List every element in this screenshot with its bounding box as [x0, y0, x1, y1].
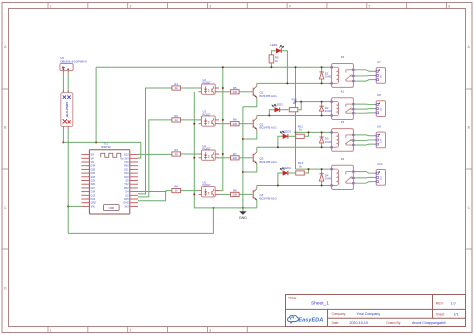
wire R5 to Q1 base — [239, 91, 253, 93]
wire collector rail row3 — [257, 146, 332, 148]
svg-text:VN: VN — [91, 161, 95, 164]
junction LED3 collector rail — [277, 146, 279, 148]
svg-text:Anoof Chappangathil: Anoof Chappangathil — [412, 321, 446, 325]
svg-text:GND: GND — [239, 216, 247, 220]
wire R8 to Q4 base — [239, 193, 253, 195]
title block frame — [286, 295, 466, 327]
transistor Q4 BC547B — [253, 189, 257, 200]
wire K1 COM to U8 — [353, 108, 374, 111]
wire R3 out to opto U4 — [181, 153, 199, 155]
svg-text:3V3: 3V3 — [124, 205, 129, 208]
svg-text:GND: GND — [91, 202, 97, 205]
svg-text:K2: K2 — [341, 120, 345, 124]
junction emitter Q2 — [242, 138, 244, 140]
svg-text:EasyEDA: EasyEDA — [298, 318, 323, 324]
svg-text:330: 330 — [233, 156, 238, 160]
junction D4 top — [321, 168, 323, 170]
wire collector rail row1 — [257, 82, 332, 84]
wire VCC distribution bus — [295, 67, 297, 169]
wire collector rail row4 — [257, 185, 332, 187]
svg-text:EN: EN — [91, 154, 95, 157]
svg-text:VIN: VIN — [91, 205, 95, 208]
resistor R7 — [231, 156, 240, 160]
junction D4 bottom — [321, 185, 323, 187]
wire K4 NO to U10 — [353, 172, 374, 174]
svg-text:1: 1 — [50, 329, 52, 333]
junction R11 rail — [308, 131, 310, 133]
svg-text:PC817: PC817 — [203, 81, 211, 85]
wire Q4 collector to rail — [256, 186, 258, 189]
junction D1 top — [321, 66, 323, 68]
svg-text:D35: D35 — [91, 168, 96, 171]
optocoupler U5 PC817 — [199, 187, 219, 197]
svg-text:U7: U7 — [377, 60, 381, 64]
transistor Q2 BC547B — [253, 118, 257, 129]
resistor R5 — [231, 90, 240, 94]
svg-text:1/1: 1/1 — [454, 313, 459, 317]
resistor R12 — [296, 171, 305, 175]
svg-text:LED3: LED3 — [284, 129, 292, 133]
svg-text:R1: R1 — [174, 82, 178, 86]
svg-text:R8: R8 — [233, 188, 237, 192]
wire K1 NO to U8 — [353, 103, 374, 105]
svg-text:2020-10-10: 2020-10-10 — [350, 321, 368, 325]
wire V+ junction to VCC riser and ESP32 VIN — [63, 142, 140, 158]
wire R1 out to opto U2 — [181, 87, 199, 89]
LED LED3 — [280, 131, 288, 139]
wire VCC rail row2 — [296, 101, 332, 103]
junction VCC dist top — [295, 66, 297, 68]
wire GPIO to R3 — [138, 153, 172, 155]
svg-text:LED1: LED1 — [270, 43, 278, 47]
svg-text:2: 2 — [129, 4, 131, 8]
relay K2 — [331, 129, 354, 152]
connector U10 — [374, 170, 385, 186]
wire VCC riser — [95, 67, 97, 142]
resistor R8 — [231, 192, 240, 196]
wire GPIO to R2 — [138, 120, 172, 197]
wire LED4 to R12 — [288, 172, 295, 174]
svg-text:2: 2 — [129, 329, 131, 333]
svg-text:TX0: TX0 — [124, 161, 129, 164]
svg-text:R3: R3 — [174, 148, 178, 152]
svg-text:BC547B A1G: BC547B A1G — [260, 94, 278, 98]
junction VCC riser — [95, 141, 97, 143]
svg-text:U9: U9 — [377, 124, 381, 128]
svg-text:D12: D12 — [91, 194, 96, 197]
ESP32 left pin names — [91, 154, 97, 209]
wire opto U4 emitter to R7 — [219, 157, 231, 159]
junction LED2 collector rail — [268, 115, 270, 117]
resistor R1 — [172, 86, 181, 90]
svg-text:D15: D15 — [124, 198, 129, 201]
junction VCC dist row2 — [295, 101, 297, 103]
frame column ticks bottom — [48, 327, 247, 333]
junction VCC dist row3 — [295, 131, 297, 133]
optocoupler U4 PC817 — [199, 150, 219, 160]
wire Q1 collector to rail — [256, 83, 258, 86]
svg-text:R5: R5 — [233, 86, 237, 90]
wire Q3 collector to rail — [256, 147, 258, 152]
junction R9 rail — [270, 66, 272, 68]
junction module V+ — [62, 141, 64, 143]
wire K1 NC to U8 — [353, 112, 374, 114]
ESP32 right pin names — [120, 154, 129, 209]
connector U6 DB12NL-5.0-2P-BK-S — [60, 64, 73, 73]
wire emitter ground bus — [242, 107, 244, 208]
transistor Q3 BC547B — [253, 152, 257, 163]
LED LED4 — [280, 168, 288, 176]
svg-text:LED4: LED4 — [284, 166, 292, 170]
resistor R10 — [289, 108, 298, 112]
wire U6 pin1 to power module — [62, 73, 64, 93]
svg-text:K4: K4 — [341, 157, 345, 161]
svg-text:R2: R2 — [174, 114, 178, 118]
svg-text:D19: D19 — [124, 172, 129, 175]
wire Q2 collector to rail — [256, 116, 258, 119]
wire K4 NC to U10 — [353, 182, 374, 184]
relay K4 — [331, 165, 354, 189]
junction D3 top — [321, 131, 323, 133]
wire LED4 anode drop — [278, 173, 283, 186]
svg-text:D34: D34 — [91, 165, 96, 168]
wire R2 out to opto U3 — [181, 119, 199, 121]
junction R10 rail — [300, 101, 302, 103]
wire K3 NC to U7 — [353, 80, 374, 81]
wire K2 NO to U9 — [353, 134, 374, 137]
wire VCC rail row1 — [96, 66, 332, 68]
LED LED1 — [276, 46, 283, 54]
wire opto U5 emitter to R8 — [219, 193, 231, 195]
wire GPIO to R1 — [138, 88, 172, 194]
svg-text:Vin 3V3: Vin 3V3 — [120, 157, 129, 160]
svg-text:BC547B A1G: BC547B A1G — [260, 126, 278, 130]
wire R9 to VCC rail — [270, 63, 272, 67]
wire U6 pin2 to power module — [67, 73, 69, 93]
wire VCC rail row3 — [296, 131, 332, 133]
svg-text:PC817: PC817 — [203, 113, 211, 117]
svg-text:R4: R4 — [174, 185, 178, 189]
svg-text:4: 4 — [289, 4, 291, 8]
junction VCC bus U2 — [222, 87, 224, 89]
junction D1 bottom — [321, 82, 323, 84]
svg-text:Date:: Date: — [332, 321, 340, 325]
junction emitter Q3 — [242, 171, 244, 173]
svg-text:R6: R6 — [233, 118, 237, 122]
diode D4 — [319, 169, 323, 185]
svg-text:330: 330 — [233, 122, 238, 126]
svg-text:5: 5 — [369, 4, 371, 8]
svg-text:HLK-PM05: HLK-PM05 — [65, 102, 69, 117]
resistor R4 — [172, 189, 181, 193]
ESP32 right pins — [130, 155, 138, 207]
resistor R11 — [296, 134, 305, 138]
wire LED2 anode drop — [269, 110, 274, 116]
wire opto U2 emitter to R5 — [219, 91, 231, 93]
diode D3 — [319, 132, 323, 147]
transistor Q1 BC547B — [253, 86, 257, 97]
resistor R9 — [269, 55, 274, 63]
svg-text:U8: U8 — [377, 93, 381, 97]
ground symbol GND — [239, 208, 247, 220]
junction opto cathode U3 — [193, 123, 195, 125]
svg-text:D25: D25 — [91, 180, 96, 183]
svg-text:DB12NL-5.0-2P-BK-S: DB12NL-5.0-2P-BK-S — [60, 59, 87, 63]
optocoupler U3 PC817 — [199, 116, 219, 126]
wire K3 NO to U7 — [353, 70, 374, 71]
wire K3 COM to U7 — [353, 74, 374, 77]
junction LED1 collector rail — [286, 82, 288, 84]
connector U8 — [374, 101, 385, 117]
wire R11 to VCC rail — [305, 132, 309, 136]
svg-text:3: 3 — [209, 329, 211, 333]
svg-text:D33: D33 — [91, 176, 96, 179]
resistor R6 — [231, 122, 240, 126]
svg-text:RX0: RX0 — [124, 165, 129, 168]
wire Q4 emitter down — [256, 200, 258, 208]
svg-text:USB: USB — [109, 206, 115, 210]
wire opto collector VCC bus — [219, 67, 223, 190]
junction VCC bus top — [222, 66, 224, 68]
optocoupler U2 PC817 — [199, 84, 219, 94]
svg-text:D23: D23 — [124, 154, 129, 157]
wire opto U3 emitter to R6 — [219, 123, 231, 125]
svg-text:RX2: RX2 — [124, 187, 129, 190]
junction opto cathode U4 — [193, 157, 195, 159]
wire R4 out to opto U5 — [181, 190, 199, 192]
wire ESP32 GND pin to ground bus — [68, 205, 81, 207]
svg-text:LED2: LED2 — [276, 103, 284, 107]
wire K2 NC to U9 — [353, 143, 374, 146]
svg-text:D21: D21 — [124, 168, 129, 171]
wire Q3 emitter down — [243, 163, 257, 172]
svg-text:TX2: TX2 — [124, 183, 129, 186]
wire K4 COM to U10 — [353, 176, 374, 179]
svg-text:330: 330 — [233, 193, 238, 197]
junction ground bus to gnd line — [212, 207, 214, 209]
svg-text:BC547B A1G: BC547B A1G — [260, 160, 278, 164]
wire LED1 cathode to collector rail — [281, 51, 287, 84]
svg-text:Sheet:: Sheet: — [436, 313, 445, 317]
svg-text:R7: R7 — [233, 152, 237, 156]
svg-text:Company:: Company: — [332, 312, 347, 316]
frame row ticks right — [466, 89, 473, 249]
wire Q1 emitter down — [243, 97, 257, 106]
wire collector rail row2 — [257, 115, 332, 117]
wire K2 COM to U9 — [353, 139, 374, 142]
EasyEDA logo — [288, 315, 324, 323]
wire LED3 to R11 — [288, 135, 295, 137]
wire R6 to Q2 base — [239, 123, 253, 125]
frame column ticks top — [48, 3, 447, 9]
svg-text:VP: VP — [91, 157, 95, 160]
wire GPIO to R4 — [138, 190, 172, 193]
wire bottom ground bus — [68, 208, 213, 234]
junction VCC bus U4 — [222, 153, 224, 155]
svg-text:D26: D26 — [91, 183, 96, 186]
junction D2 top — [321, 101, 323, 103]
svg-text:Drawn By:: Drawn By: — [386, 321, 401, 325]
junction opto cathode U5 — [193, 193, 195, 195]
svg-text:Sheet_1: Sheet_1 — [311, 300, 329, 306]
wire LED3 anode drop — [278, 136, 283, 147]
wire R7 to Q3 base — [239, 157, 253, 159]
svg-text:ESP32: ESP32 — [101, 145, 111, 149]
svg-text:K1: K1 — [341, 89, 345, 93]
LED LED2 — [272, 105, 280, 113]
svg-text:Your Company: Your Company — [357, 312, 381, 316]
svg-text:K3: K3 — [341, 55, 345, 59]
resistor R2 — [172, 118, 181, 122]
ESP32 left pins — [81, 155, 89, 207]
wire GPIO to R4 elbow — [138, 192, 166, 201]
junction LED4 collector rail — [277, 185, 279, 187]
power module U11 HLK-PM05 — [61, 90, 73, 128]
junction VCC bus U3 — [222, 119, 224, 121]
svg-text:3: 3 — [209, 4, 211, 8]
connector U9 — [374, 132, 385, 148]
svg-text:PC817: PC817 — [203, 147, 211, 151]
svg-text:1: 1 — [50, 4, 52, 8]
resistor R3 — [172, 152, 181, 156]
svg-text:6: 6 — [448, 4, 450, 8]
svg-text:PC817: PC817 — [203, 183, 211, 187]
wire Q2 emitter down — [243, 129, 257, 139]
wire LED2 to R10 — [280, 109, 289, 111]
junction D3 bottom — [321, 146, 323, 148]
svg-text:D14: D14 — [91, 191, 96, 194]
svg-text:BC547B A1G: BC547B A1G — [260, 196, 278, 200]
wire LED1 R9 branch — [271, 51, 276, 55]
svg-text:D32: D32 — [91, 172, 96, 175]
connector U7 — [374, 68, 385, 84]
svg-text:D18: D18 — [124, 176, 129, 179]
svg-text:1.0: 1.0 — [451, 302, 456, 306]
svg-text:GND: GND — [123, 202, 129, 205]
diode D1 — [319, 67, 323, 83]
junction gnd symbol node — [242, 207, 244, 209]
junction R12 rail — [308, 168, 310, 170]
junction D2 bottom — [321, 115, 323, 117]
diode D2 — [319, 102, 323, 116]
wire R12 to VCC rail — [305, 169, 309, 173]
wire module V+ down to junction — [62, 129, 64, 143]
relay K3 — [331, 64, 354, 88]
svg-text:D13: D13 — [91, 198, 96, 201]
frame row ticks left — [2, 89, 9, 249]
wire opto cathode bus — [194, 92, 256, 208]
svg-text:330: 330 — [233, 90, 238, 94]
svg-text:D27: D27 — [91, 187, 96, 190]
svg-text:REV:: REV: — [436, 302, 444, 306]
junction ESP32 gnd join — [67, 205, 69, 207]
relay K1 — [331, 98, 354, 120]
wire module GND down — [67, 129, 69, 234]
wire R10 to VCC rail — [299, 102, 302, 110]
frame row letters — [4, 45, 471, 291]
wire VCC rail row4 — [296, 168, 332, 170]
microcontroller U1 ESP32 — [89, 150, 129, 214]
svg-text:TITLE:: TITLE: — [288, 296, 297, 300]
svg-text:U10: U10 — [377, 162, 383, 166]
